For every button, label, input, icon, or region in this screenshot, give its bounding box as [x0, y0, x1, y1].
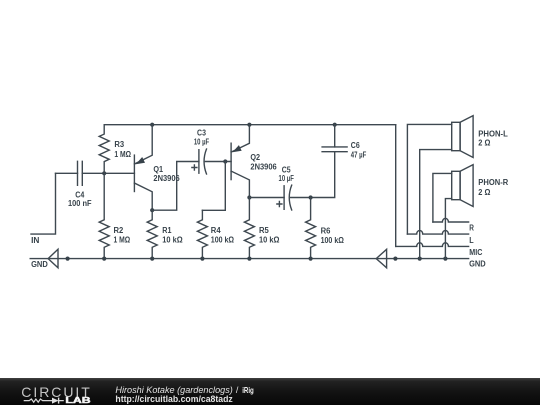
node PHON-R bottom to GND: [443, 257, 447, 261]
svg-text:iRig: iRig: [242, 385, 254, 395]
node R6 top: [309, 195, 313, 199]
ground rail: [30, 258, 468, 260]
capacitor C3 polarized: [192, 127, 209, 174]
svg-text:R6: R6: [321, 225, 331, 235]
resistor R5: [244, 198, 279, 259]
ground flag right: [376, 249, 386, 267]
resistor R6: [306, 198, 344, 259]
wire C4 to Q1 base: [82, 172, 134, 174]
node Q2 collector / R5: [247, 195, 251, 199]
svg-text:L: L: [469, 235, 473, 245]
transistor Q1 2N3906: [134, 125, 179, 211]
wire C3 to Q2 base: [205, 161, 231, 163]
terminal L line with hops: [407, 230, 473, 245]
transistor Q2 2N3906: [231, 125, 277, 198]
svg-text:2 Ω: 2 Ω: [478, 187, 490, 197]
wire top supply rail: [104, 124, 396, 126]
node PHON-L bottom to GND: [418, 257, 422, 261]
svg-text:GND: GND: [469, 259, 486, 269]
svg-text:2N3906: 2N3906: [250, 161, 276, 171]
svg-text:R4: R4: [211, 225, 221, 235]
node R1 bottom: [150, 257, 154, 261]
node R5 bottom: [247, 257, 251, 261]
resistor R2: [99, 173, 130, 258]
ground flag left: [31, 249, 58, 269]
node Q2 base / R4 branch: [223, 159, 227, 163]
svg-text:10 µF: 10 µF: [194, 136, 209, 146]
svg-text:R1: R1: [162, 225, 171, 235]
resistor R4: [197, 210, 234, 258]
wire PHON-L top to L: [407, 124, 451, 234]
svg-text:IN: IN: [31, 235, 39, 245]
resistor R1: [147, 210, 183, 258]
svg-text:100 kΩ: 100 kΩ: [211, 235, 234, 245]
svg-text:10 µF: 10 µF: [279, 173, 294, 183]
svg-text:R2: R2: [114, 225, 124, 235]
svg-text:2N3906: 2N3906: [153, 173, 179, 183]
svg-text:GND: GND: [31, 259, 48, 269]
wire Q2 collector to C5: [249, 197, 284, 199]
node R6 bottom: [309, 257, 313, 261]
svg-text:http://circuitlab.com/ca8tadz: http://circuitlab.com/ca8tadz: [115, 394, 233, 404]
svg-text:LAB: LAB: [65, 396, 91, 405]
svg-text:1 MΩ: 1 MΩ: [114, 149, 131, 159]
capacitor C5 polarized: [277, 165, 294, 211]
speaker PHON-R: [452, 165, 509, 207]
svg-text:2 Ω: 2 Ω: [478, 137, 490, 147]
capacitor C6: [322, 125, 366, 160]
svg-text:100 nF: 100 nF: [68, 198, 92, 208]
terminal MIC line with hops: [396, 243, 483, 257]
node R2 bottom: [102, 257, 106, 261]
speaker PHON-L: [452, 116, 508, 158]
node GND flag right anchor: [393, 257, 397, 261]
wire PHON-L bottom to GND: [420, 150, 452, 259]
svg-text:100 kΩ: 100 kΩ: [321, 235, 344, 245]
node Q1 collector / R1: [150, 208, 154, 212]
node R4 bottom: [200, 257, 204, 261]
svg-text:R3: R3: [114, 139, 124, 149]
wire Q1 collector to C3: [152, 162, 199, 211]
svg-text:PHON-R: PHON-R: [478, 177, 509, 187]
wire PHON-R bottom to GND: [445, 199, 451, 259]
svg-text:47 µF: 47 µF: [351, 149, 367, 159]
wire C5 to R6 node and C6: [291, 152, 335, 198]
node Q1 base / R3 / R2: [102, 171, 106, 175]
svg-text:1 MΩ: 1 MΩ: [114, 235, 131, 245]
capacitor C4: [68, 161, 92, 208]
svg-text:10 kΩ: 10 kΩ: [162, 235, 182, 245]
svg-text:R: R: [469, 223, 474, 233]
node Q2 emitter rail junction: [247, 123, 251, 127]
wire rail right drop to MIC: [395, 125, 397, 247]
svg-text:MIC: MIC: [469, 247, 482, 257]
resistor R3: [99, 125, 131, 174]
terminal IN: [31, 173, 56, 245]
node GND flag left anchor: [66, 257, 70, 261]
wire Q2 base to R4: [202, 162, 225, 211]
wire PHON-R top to R: [433, 173, 452, 222]
svg-text:R5: R5: [259, 225, 269, 235]
terminal R line with hop: [433, 218, 475, 232]
node Q1 emitter rail junction: [150, 123, 154, 127]
wire IN to C4: [56, 172, 78, 174]
footer bar: [0, 378, 540, 405]
node C6 top rail junction: [333, 123, 337, 127]
svg-text:10 kΩ: 10 kΩ: [259, 235, 279, 245]
